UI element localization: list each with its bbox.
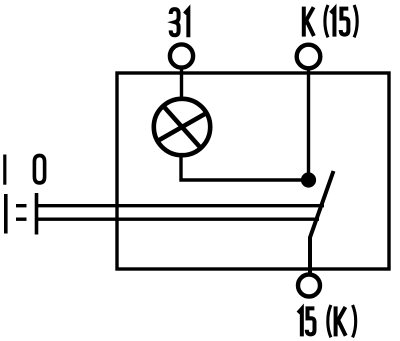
label I xyxy=(3,155,6,185)
label 0 xyxy=(34,155,44,182)
label K (15) xyxy=(304,5,357,37)
label 31 xyxy=(171,9,189,37)
actuator dash top xyxy=(16,204,27,207)
terminal 15(K) xyxy=(298,275,320,297)
actuator bar position 0 xyxy=(35,193,39,235)
wire terminal K(15) to junction xyxy=(307,68,310,180)
actuator bar position I xyxy=(4,194,8,234)
housing box xyxy=(117,73,389,269)
terminal K(15) xyxy=(297,45,321,69)
junction dot xyxy=(301,172,316,187)
actuator rod top line xyxy=(37,204,324,207)
switch lever xyxy=(310,171,334,274)
wire terminal31 to lamp xyxy=(180,68,183,102)
terminal 31 xyxy=(170,44,193,67)
lamp xyxy=(154,99,210,155)
wire lamp to junction xyxy=(181,157,309,181)
actuator rod bottom line xyxy=(37,217,319,220)
actuator dash bottom xyxy=(16,217,27,220)
label 15 (K) xyxy=(298,305,356,337)
